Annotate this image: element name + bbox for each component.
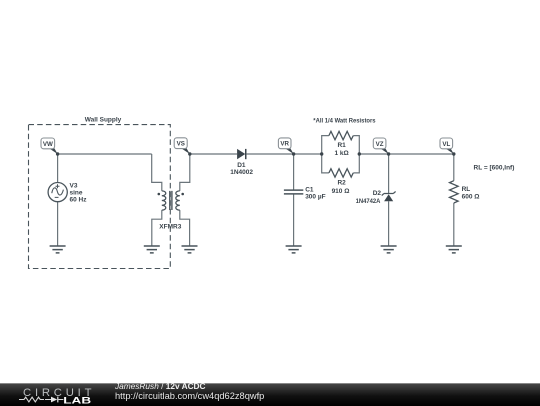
svg-text:sine: sine <box>70 189 83 196</box>
svg-text:RL = [600,Inf): RL = [600,Inf) <box>474 165 515 172</box>
svg-text:60 Hz: 60 Hz <box>70 196 88 203</box>
svg-text:600 Ω: 600 Ω <box>462 194 480 201</box>
svg-text:R2: R2 <box>337 180 346 187</box>
svg-text:D2: D2 <box>373 190 382 197</box>
svg-text:R1: R1 <box>337 142 346 149</box>
svg-text:D1: D1 <box>237 162 246 169</box>
svg-text:C1: C1 <box>305 186 314 193</box>
svg-text:1N4742A: 1N4742A <box>356 198 381 205</box>
svg-text:V3: V3 <box>70 182 78 189</box>
svg-text:VZ: VZ <box>376 141 384 148</box>
svg-text:LAB: LAB <box>63 395 92 405</box>
svg-text:VR: VR <box>280 141 289 148</box>
svg-text:Wall Supply: Wall Supply <box>85 117 122 124</box>
svg-text:1N4002: 1N4002 <box>230 169 253 176</box>
svg-text:XFMR3: XFMR3 <box>159 224 181 231</box>
svg-text:VL: VL <box>442 141 450 148</box>
svg-text:300 µF: 300 µF <box>305 193 325 200</box>
svg-text:VS: VS <box>177 141 185 148</box>
svg-text:*All 1/4 Watt Resistors: *All 1/4 Watt Resistors <box>313 117 376 124</box>
svg-text:RL: RL <box>462 186 471 193</box>
svg-text:910 Ω: 910 Ω <box>332 188 350 195</box>
svg-text:1 kΩ: 1 kΩ <box>334 150 348 157</box>
svg-text:VW: VW <box>43 141 53 148</box>
